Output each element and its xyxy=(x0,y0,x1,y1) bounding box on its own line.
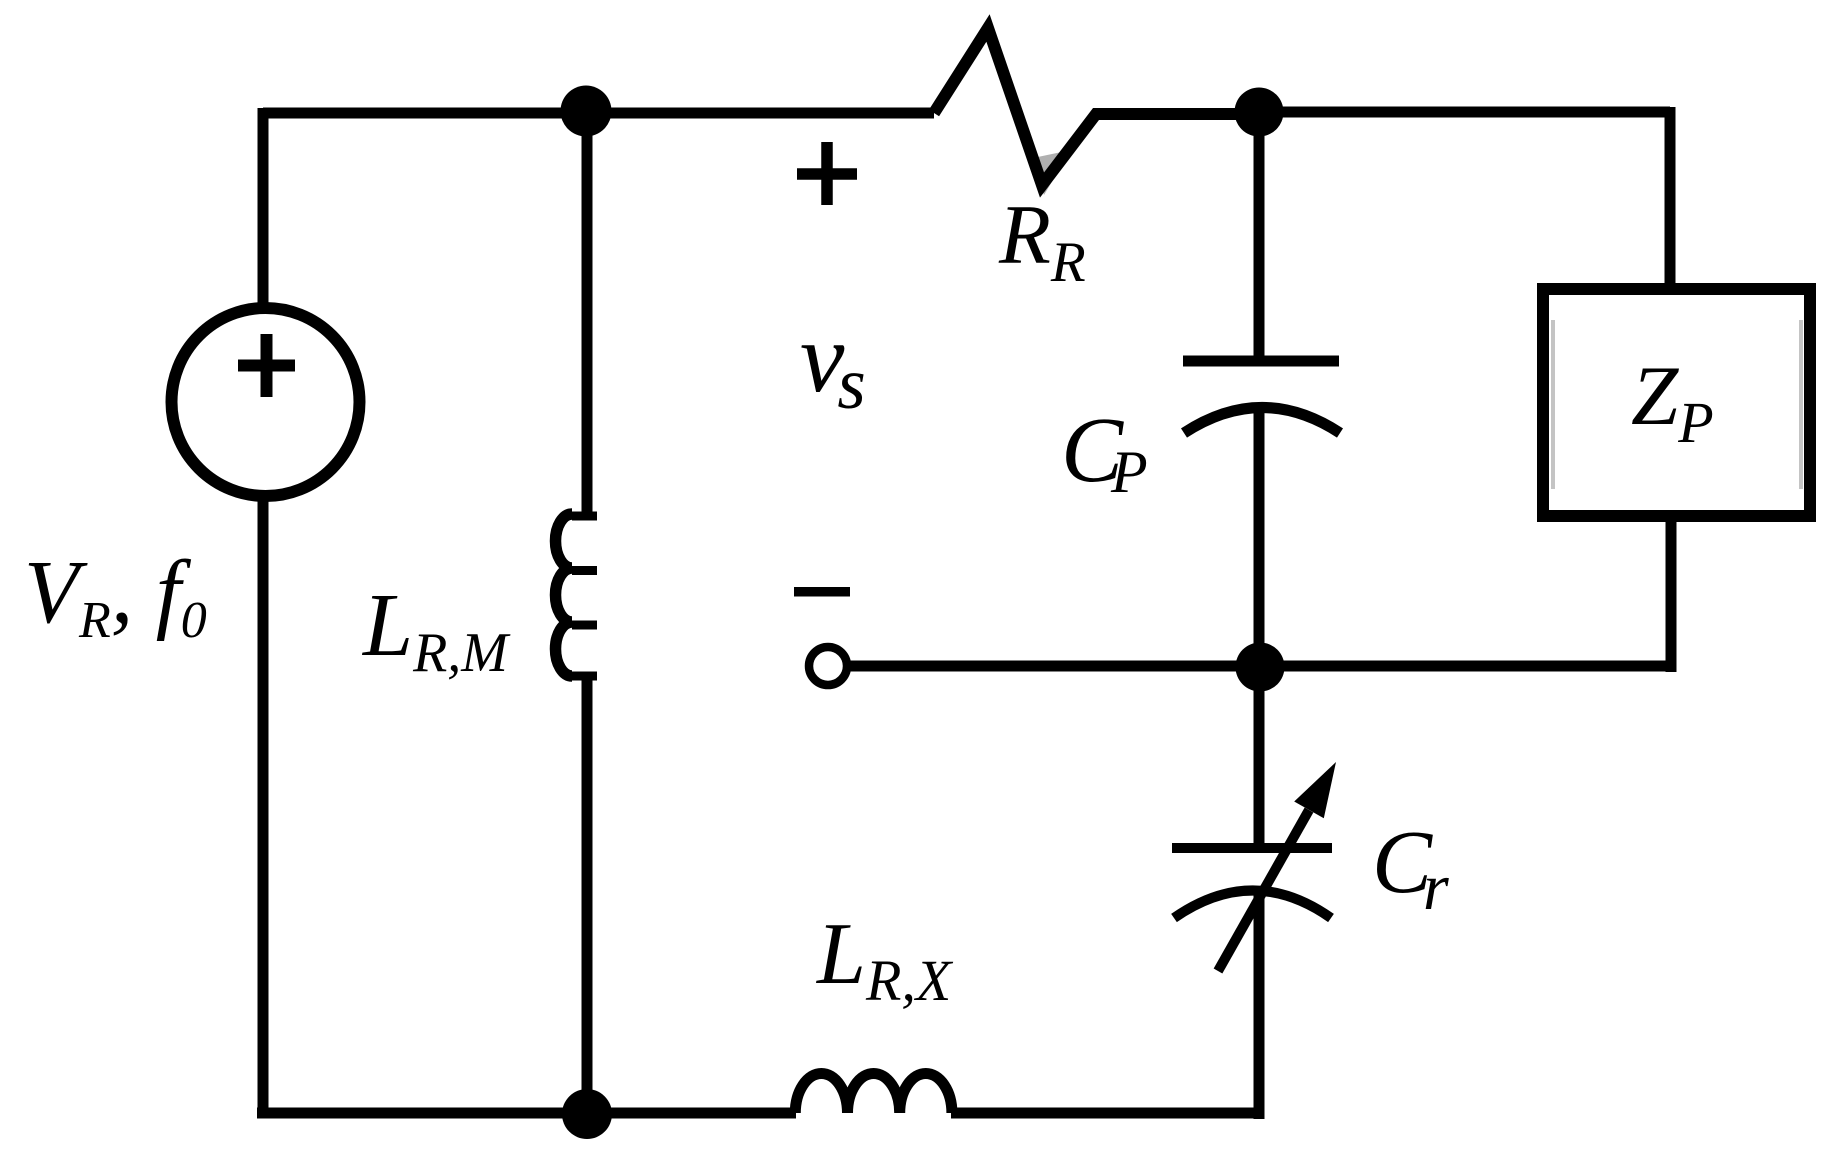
svg-text:VR, f0: VR, f0 xyxy=(24,543,207,649)
